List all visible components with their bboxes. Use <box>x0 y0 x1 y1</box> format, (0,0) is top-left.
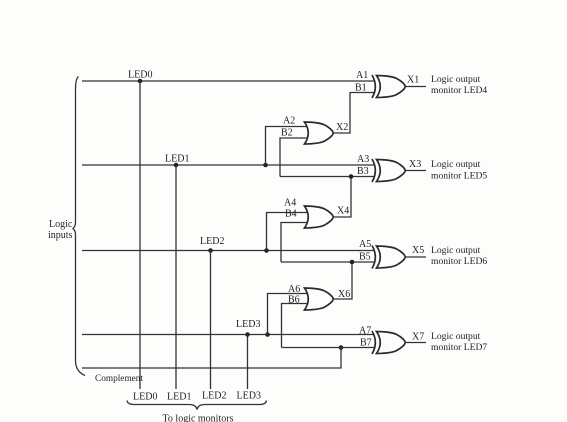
label LED1 (bottom) <box>167 392 191 403</box>
node LED3 to A6 junction <box>265 332 270 337</box>
xor-gate X1 <box>372 75 405 98</box>
node X6 output to B5 junction <box>350 260 355 265</box>
svg-text:Logic output: Logic output <box>431 159 481 170</box>
svg-text:Logic output: Logic output <box>431 74 481 85</box>
wire LED1 vertical drop <box>175 165 177 389</box>
or-gate X6 <box>305 288 334 310</box>
svg-text:B3: B3 <box>357 166 369 177</box>
svg-text:LED3: LED3 <box>236 319 260 330</box>
label B2 <box>281 128 293 139</box>
xor-gate X5 <box>372 246 405 269</box>
svg-text:LED1: LED1 <box>167 392 191 403</box>
node LED1 to A2 junction <box>263 163 268 168</box>
svg-text:inputs: inputs <box>48 230 73 241</box>
label A7 <box>359 326 371 337</box>
wire X3 output <box>406 170 427 172</box>
svg-text:A7: A7 <box>359 326 371 337</box>
wire B7 line <box>282 347 375 349</box>
label Logic inputs <box>48 219 73 241</box>
wire X5 output <box>406 256 427 258</box>
label Logic output monitor LED4 <box>431 74 487 96</box>
svg-text:Complement: Complement <box>95 374 143 384</box>
wire B6 input from B7 rail <box>282 304 308 348</box>
svg-text:B5: B5 <box>359 252 371 263</box>
label B7 <box>360 338 372 349</box>
node LED1 drop junction <box>174 163 179 168</box>
wire X1 output <box>406 86 427 88</box>
label Logic output monitor LED6 <box>431 245 487 267</box>
svg-text:X7: X7 <box>412 332 424 343</box>
label A4 <box>284 198 296 209</box>
wire LED3 to A6 input <box>268 294 308 335</box>
label LED2 (bottom) <box>202 391 226 402</box>
svg-text:LED2: LED2 <box>202 391 226 402</box>
svg-text:monitor LED6: monitor LED6 <box>431 256 487 267</box>
wire LED3 vertical drop <box>247 335 249 390</box>
label A2 <box>283 116 295 127</box>
label X4 <box>337 206 349 217</box>
label B5 <box>359 252 371 263</box>
wire B2 input from B3 rail <box>280 138 307 177</box>
node Complement to B7 junction <box>339 345 344 350</box>
or-gate X2 <box>305 122 334 144</box>
xor-gate X3 <box>372 159 405 182</box>
label LED0 (bottom) <box>133 392 157 403</box>
svg-text:X5: X5 <box>412 245 424 256</box>
label X6 <box>338 289 350 300</box>
svg-text:B2: B2 <box>281 128 293 139</box>
label Complement <box>95 374 143 384</box>
wire Complement line <box>82 348 341 369</box>
bottom brace to logic monitors <box>127 401 267 410</box>
svg-text:monitor LED5: monitor LED5 <box>431 171 487 182</box>
wire LED1 to A2 input <box>266 127 308 166</box>
svg-text:LED3: LED3 <box>237 391 261 402</box>
label To logic monitors <box>163 414 234 422</box>
wire LED2 horizontal line <box>82 250 375 252</box>
svg-text:B7: B7 <box>360 338 372 349</box>
wire LED3 horizontal line <box>82 334 375 336</box>
svg-text:A2: A2 <box>283 116 295 127</box>
svg-text:B4: B4 <box>285 209 297 220</box>
svg-text:X4: X4 <box>337 206 349 217</box>
svg-text:Logic output: Logic output <box>431 245 481 256</box>
wire B3 line <box>280 176 375 178</box>
node LED3 drop junction <box>245 332 250 337</box>
wire X2 output to B1 <box>334 93 375 134</box>
label LED2 (top) <box>200 236 224 247</box>
label LED3 (bottom) <box>237 391 261 402</box>
svg-text:X1: X1 <box>407 75 419 86</box>
svg-text:X6: X6 <box>338 289 350 300</box>
wire X7 output <box>406 342 427 344</box>
left brace for logic inputs <box>73 77 85 376</box>
wire LED1 horizontal line <box>82 164 375 166</box>
label B4 <box>285 209 297 220</box>
label Logic output monitor LED7 <box>431 331 487 353</box>
wire LED2 vertical drop <box>210 251 212 390</box>
svg-text:B1: B1 <box>355 83 367 94</box>
svg-text:X3: X3 <box>409 159 421 170</box>
label X5 <box>412 245 424 256</box>
label LED3 (top) <box>236 319 260 330</box>
label X7 <box>412 332 424 343</box>
label LED1 (top) <box>165 154 189 165</box>
label X2 <box>336 122 348 133</box>
wire B4 input from B5 rail <box>281 223 307 263</box>
label X3 <box>409 159 421 170</box>
label A1 <box>356 70 368 81</box>
label X1 <box>407 75 419 86</box>
node LED2 to A4 junction <box>264 248 269 253</box>
svg-text:A1: A1 <box>356 70 368 81</box>
label B3 <box>357 166 369 177</box>
svg-text:A5: A5 <box>359 239 371 250</box>
svg-text:Logic output: Logic output <box>431 331 481 342</box>
label A6 <box>288 284 300 295</box>
svg-text:A6: A6 <box>288 284 300 295</box>
or-gate X4 <box>305 206 334 228</box>
wire X6 output to B5 <box>334 262 353 299</box>
svg-text:To logic monitors: To logic monitors <box>163 414 234 422</box>
svg-text:LED2: LED2 <box>200 236 224 247</box>
xor-gate X7 <box>372 331 405 354</box>
wire B5 line <box>281 261 375 263</box>
label B6 <box>288 295 300 306</box>
label A5 <box>359 239 371 250</box>
label Logic output monitor LED5 <box>431 159 487 182</box>
svg-text:monitor LED4: monitor LED4 <box>431 85 487 96</box>
svg-text:A4: A4 <box>284 198 296 209</box>
svg-text:Logic: Logic <box>49 219 73 230</box>
label A3 <box>357 154 369 165</box>
label LED0 (top) <box>128 70 152 81</box>
wire LED0 vertical drop <box>139 81 141 389</box>
wire LED0 horizontal line <box>82 80 375 82</box>
svg-text:monitor LED7: monitor LED7 <box>431 342 487 353</box>
svg-text:A3: A3 <box>357 154 369 165</box>
svg-text:X2: X2 <box>336 122 348 133</box>
wire X4 output to B3 <box>334 177 352 218</box>
svg-text:LED0: LED0 <box>133 392 157 403</box>
svg-text:LED1: LED1 <box>165 154 189 165</box>
node X4 output to B3 junction <box>349 174 354 179</box>
wire LED2 to A4 input <box>267 213 308 251</box>
label B1 <box>355 83 367 94</box>
node LED2 drop junction <box>208 248 213 253</box>
node LED0 junction <box>138 79 143 84</box>
